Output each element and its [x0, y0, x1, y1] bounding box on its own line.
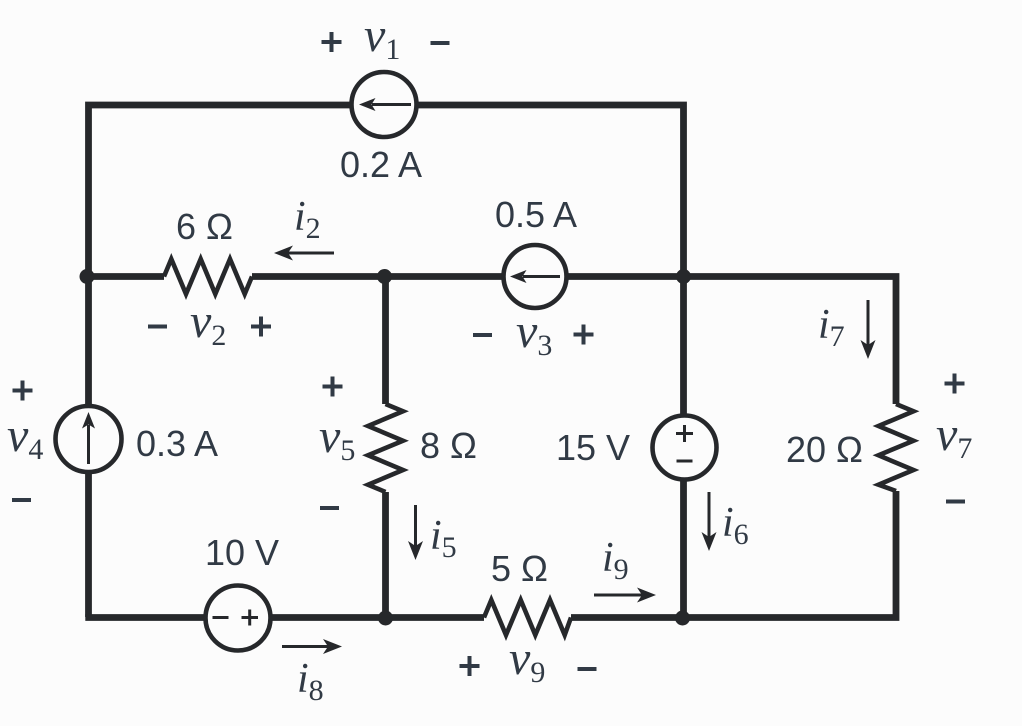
svg-text:i8: i8 — [297, 656, 324, 707]
svg-text:v3: v3 — [516, 305, 552, 362]
voltage source 10V plus — [242, 610, 259, 626]
svg-text:0.5 A: 0.5 A — [495, 194, 577, 235]
node B middle second row — [377, 269, 392, 284]
svg-text:0.3 A: 0.3 A — [136, 423, 218, 464]
resistor 8 ohm zigzag — [368, 404, 403, 492]
wire: right vertical upper part + second row right segment — [683, 277, 896, 405]
label v2 plus — [251, 317, 271, 337]
node D middle bottom row — [378, 611, 393, 626]
current source 0.3A arrow — [87, 425, 90, 464]
arrow i8 — [282, 645, 328, 648]
current source 0.2A arrow — [372, 103, 411, 106]
current source 0.5A arrow — [523, 275, 560, 278]
wire: bottom row right portion + right vertical lower part — [571, 491, 896, 618]
voltage source 10V circle — [206, 586, 271, 651]
voltage source 10V minus — [213, 616, 229, 619]
voltage source 15V plus — [676, 425, 693, 442]
label v2 minus — [148, 325, 167, 329]
svg-text:i7: i7 — [818, 302, 845, 353]
svg-text:20 Ω: 20 Ω — [786, 429, 863, 470]
svg-text:15 V: 15 V — [556, 427, 630, 468]
label v7 plus — [945, 374, 965, 394]
label v1 plus — [322, 32, 342, 52]
svg-text:v2: v2 — [190, 295, 226, 352]
svg-text:10 V: 10 V — [205, 532, 279, 573]
label v9 plus — [460, 656, 480, 676]
node C right second row — [676, 269, 691, 284]
svg-text:i5: i5 — [430, 513, 457, 564]
wire: left vertical + top wire + upper mid-right vertical — [89, 105, 684, 617]
svg-text:v1: v1 — [364, 9, 400, 66]
arrow i7 — [867, 300, 870, 345]
svg-text:0.2 A: 0.2 A — [340, 144, 422, 185]
label v4 plus — [13, 381, 33, 401]
svg-text:v9: v9 — [509, 632, 545, 689]
arrow i6 — [708, 492, 711, 537]
arrow i5 — [414, 505, 417, 546]
resistor 5 ohm zigzag — [484, 600, 571, 635]
resistor 20 ohm zigzag — [879, 404, 914, 491]
voltage source 15V minus — [677, 460, 693, 463]
svg-text:8 Ω: 8 Ω — [420, 425, 477, 466]
wire: second row middle segment — [252, 273, 683, 280]
svg-text:i6: i6 — [722, 500, 749, 551]
node E right bottom row — [675, 611, 690, 626]
wire: bottom row left portion — [85, 614, 484, 621]
arrow i9 — [594, 594, 642, 597]
label v9 minus — [578, 667, 597, 671]
voltage source 15V circle — [653, 416, 717, 480]
label v5 plus — [323, 377, 343, 397]
current source 0.2A circle — [352, 72, 417, 137]
label v3 minus — [473, 333, 492, 337]
label v5 minus — [320, 506, 339, 510]
node A left second row — [80, 269, 95, 284]
resistor 6 ohm zigzag — [164, 259, 252, 294]
svg-text:v4: v4 — [7, 409, 43, 466]
svg-text:6 Ω: 6 Ω — [176, 206, 233, 247]
svg-text:v7: v7 — [936, 408, 972, 465]
label v3 plus — [574, 325, 594, 345]
wire: 8-ohm branch upper stub — [382, 277, 389, 405]
svg-text:v5: v5 — [319, 410, 355, 467]
arrow i2 — [288, 252, 334, 255]
label v4 minus — [12, 498, 31, 502]
wire: 8-ohm branch lower stub — [382, 492, 389, 617]
svg-text:i9: i9 — [602, 535, 629, 586]
label v1 minus — [431, 41, 450, 45]
svg-text:5 Ω: 5 Ω — [491, 548, 548, 589]
wire: mid-right vertical through 15V source — [680, 277, 687, 618]
label v7 minus — [946, 500, 965, 504]
current source 0.3A circle — [56, 406, 122, 472]
wire: second row left segment — [85, 273, 164, 280]
current source 0.5A circle — [504, 245, 567, 308]
svg-text:i2: i2 — [294, 194, 321, 245]
